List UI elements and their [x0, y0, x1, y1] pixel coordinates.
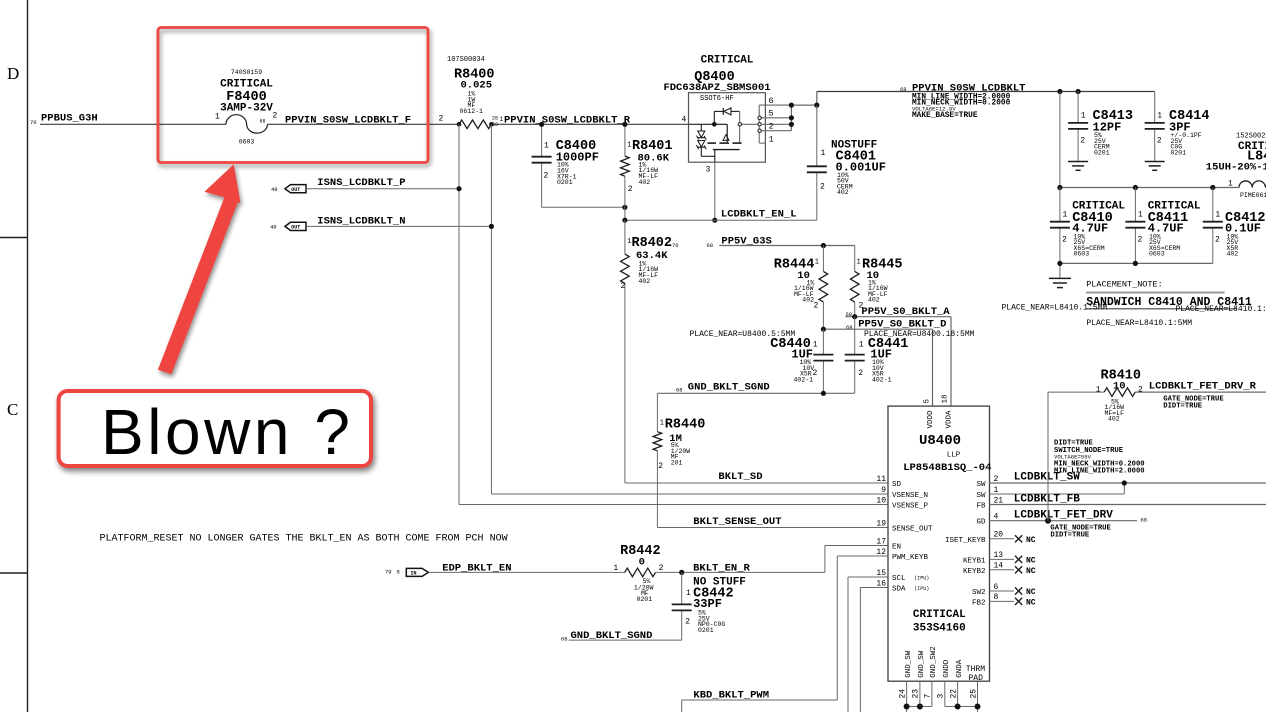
wire BKLT_EN_R	[656, 546, 889, 573]
svg-text:68: 68	[846, 324, 853, 331]
capacitor C8441	[845, 355, 865, 361]
capacitor C8411	[1125, 222, 1145, 228]
junction R8401 top	[622, 122, 627, 127]
capacitor C8413 wires	[1060, 92, 1078, 188]
svg-text:D: D	[7, 64, 19, 83]
wire VIN cap rail	[1060, 187, 1239, 189]
resistor R8445 labels	[857, 257, 903, 310]
capacitor C8401	[807, 166, 827, 172]
svg-text:2: 2	[439, 115, 444, 124]
svg-text:1: 1	[544, 142, 549, 151]
svg-text:LP8548B1SQ_-04: LP8548B1SQ_-04	[903, 462, 991, 474]
net PPVIN_S0SW_LCDBKLT_R label	[504, 114, 631, 126]
svg-text:20: 20	[994, 531, 1004, 540]
junction Q8400 pin3	[712, 218, 717, 223]
inductor L8400 pin1	[1228, 180, 1233, 189]
fuse F8400 pins	[215, 112, 278, 125]
wire R8400 to Q8400 pin4	[491, 123, 688, 125]
junction BKLT_EN_R	[679, 570, 684, 575]
resistor R8440 wires	[657, 393, 888, 527]
junction Q8400 bus 2	[789, 122, 794, 127]
junction PPVIN C8413	[1076, 89, 1081, 94]
svg-text:1: 1	[660, 420, 664, 428]
svg-text:THRM: THRM	[966, 665, 985, 674]
svg-text:3: 3	[937, 694, 946, 699]
svg-text:PLACE_NEAR=L8410.1:5MM: PLACE_NEAR=L8410.1:5MM	[1002, 304, 1108, 313]
net PPVIN_S0SW_LCDBKLT_F label	[285, 114, 411, 126]
svg-text:79: 79	[385, 569, 392, 576]
junction rail2 C8411	[1133, 185, 1138, 190]
junction rail2 C8410	[1057, 185, 1062, 190]
svg-text:PLACE_NEAR=L8410.1:5MM: PLACE_NEAR=L8410.1:5MM	[1176, 305, 1266, 314]
ground C8414	[1145, 162, 1165, 171]
net PP5V_S0_BKLT_D label	[846, 318, 946, 331]
svg-text:1: 1	[1096, 386, 1101, 395]
svg-text:LCDBKLT_FB: LCDBKLT_FB	[1014, 494, 1080, 506]
svg-text:NC: NC	[1026, 588, 1036, 597]
svg-text:201: 201	[671, 460, 683, 467]
net PPVIN_S0SW_LCDBKLT label	[900, 83, 1025, 95]
svg-text:11: 11	[876, 475, 886, 484]
svg-text:0201: 0201	[1171, 149, 1187, 156]
transistor Q8400 body	[689, 93, 766, 163]
svg-text:2: 2	[544, 172, 549, 181]
junction ISNS_P	[456, 186, 461, 191]
svg-text:402: 402	[802, 297, 814, 304]
svg-text:2: 2	[813, 369, 818, 378]
svg-text:19: 19	[876, 519, 886, 528]
resistor R8444	[819, 271, 828, 302]
svg-text:1: 1	[1157, 112, 1162, 121]
svg-text:KEYB2: KEYB2	[963, 568, 986, 576]
resistor R8401	[621, 156, 630, 176]
net PPVIN attributes	[912, 93, 1011, 120]
net GND_BKLT_SGND label	[676, 382, 770, 394]
svg-text:1: 1	[1063, 211, 1068, 220]
svg-text:U8400: U8400	[919, 433, 961, 449]
note PLACE_NEAR right	[1176, 305, 1266, 314]
svg-text:402-1: 402-1	[872, 377, 892, 384]
ground main caps	[1049, 278, 1071, 287]
svg-text:1: 1	[859, 341, 864, 350]
junction Q8400 bus 5	[789, 115, 794, 120]
capacitor C8414 labels	[1157, 109, 1210, 156]
svg-text:68: 68	[561, 635, 568, 642]
resistor R8400 pins	[439, 115, 504, 129]
svg-text:2: 2	[1080, 137, 1085, 146]
svg-text:ISNS_LCDBKLT_N: ISNS_LCDBKLT_N	[317, 215, 405, 227]
svg-text:SW: SW	[976, 492, 986, 500]
svg-text:2: 2	[820, 183, 825, 192]
svg-text:1: 1	[857, 259, 861, 267]
resistor R8401 labels	[627, 139, 672, 194]
svg-text:0201: 0201	[637, 596, 653, 603]
svg-text:152S0026: 152S0026	[1236, 133, 1266, 141]
net PP5V_S0_BKLT_A label	[846, 306, 951, 318]
capacitor C8410 wires	[1059, 188, 1061, 264]
capacitor C8400 wires	[542, 124, 625, 207]
svg-text:0201: 0201	[1094, 149, 1110, 156]
svg-text:1: 1	[1215, 211, 1220, 220]
ic U8400 nc pin8	[990, 598, 1036, 608]
svg-text:PLACE_NEAR=L8410.1:5MM: PLACE_NEAR=L8410.1:5MM	[1086, 319, 1192, 328]
svg-text:68: 68	[1141, 517, 1148, 524]
junction C8400 top	[539, 122, 544, 127]
capacitor C8411 wires	[1134, 188, 1136, 264]
zone letter D	[7, 64, 19, 83]
junction Q8400 bus 6	[789, 103, 794, 108]
inductor L8400	[1239, 181, 1266, 188]
svg-text:GND_BKLT_SGND: GND_BKLT_SGND	[688, 382, 770, 394]
svg-text:GNDA: GNDA	[956, 659, 964, 678]
junction gnd 23	[917, 704, 923, 710]
capacitor C8441 labels	[858, 337, 908, 384]
svg-text:5: 5	[923, 399, 931, 404]
wire PP5V_S0_BKLT_D	[821, 329, 932, 406]
net ISNS_LCDBKLT_N label	[317, 215, 405, 227]
resistor R8400 labels	[447, 56, 495, 115]
svg-text:28: 28	[492, 116, 498, 122]
svg-text:740S0159: 740S0159	[231, 69, 262, 76]
ic U8400 labels	[903, 433, 991, 635]
svg-text:16: 16	[876, 579, 886, 588]
svg-text:NC: NC	[1026, 567, 1036, 576]
wire PPBUS_G3H	[40, 123, 226, 125]
svg-text:49: 49	[271, 186, 278, 193]
capacitor C8442 labels	[685, 576, 746, 634]
wire SDA vertical	[860, 588, 888, 712]
wire Q8400 drain bus	[791, 105, 816, 131]
svg-text:0201: 0201	[557, 179, 573, 186]
svg-text:NC: NC	[1026, 557, 1036, 566]
wire fuse to R8400	[268, 123, 460, 125]
transistor Q8400 labels	[663, 55, 770, 94]
svg-text:18: 18	[941, 394, 949, 403]
svg-text:0603: 0603	[239, 139, 255, 146]
svg-text:PLATFORM_RESET NO LONGER GATES: PLATFORM_RESET NO LONGER GATES THE BKLT_…	[100, 534, 508, 545]
svg-text:353S4160: 353S4160	[913, 623, 966, 635]
wire BKLT_SD	[625, 481, 888, 483]
svg-text:NC: NC	[1026, 599, 1036, 608]
svg-text:1: 1	[821, 149, 826, 158]
capacitor C8440	[813, 355, 833, 361]
ic U8400 bottom pin names	[898, 646, 985, 698]
port OUT ISNS_LCDBKLT_N	[270, 222, 306, 230]
svg-text:GND_SW: GND_SW	[905, 650, 913, 678]
net LCDBKLT_EN_L label	[721, 209, 797, 221]
svg-text:BKLT_SD: BKLT_SD	[718, 471, 762, 483]
junction rail3 C8410	[1057, 261, 1062, 266]
ground C8413	[1068, 162, 1088, 171]
svg-text:5: 5	[769, 109, 774, 119]
svg-text:(IPU): (IPU)	[914, 576, 929, 582]
svg-text:LCDBKLT_FET_DRV_R: LCDBKLT_FET_DRV_R	[1149, 381, 1257, 393]
net PPBUS_G3H label	[30, 113, 98, 127]
resistor R8402	[621, 254, 630, 283]
capacitor C8440 wires	[822, 329, 824, 393]
svg-text:VSENSE_N: VSENSE_N	[892, 492, 928, 500]
svg-text:2: 2	[814, 302, 819, 311]
svg-text:C: C	[7, 400, 18, 419]
ic U8400 left pin names	[876, 475, 933, 594]
capacitor C8442	[672, 604, 692, 610]
wire R8445 bottom	[854, 302, 856, 317]
net PP5V_G3S label	[672, 235, 772, 249]
net LCDBKLT_SW attributes	[1054, 440, 1145, 476]
net BKLT_SD label	[718, 471, 762, 483]
resistor R8442 labels	[613, 544, 663, 603]
resistor R8444 labels	[774, 257, 819, 310]
annotation red box around F8400	[158, 28, 428, 163]
capacitor C8414 wires	[1154, 92, 1156, 161]
svg-text:5: 5	[397, 569, 400, 576]
transistor Q8400 pin4 label	[682, 116, 687, 125]
svg-text:402: 402	[837, 189, 849, 196]
svg-text:6: 6	[994, 583, 999, 592]
net BKLT_EN_R label	[693, 562, 750, 574]
resistor R8401 wires	[624, 124, 626, 220]
note PLATFORM_RESET	[100, 534, 508, 545]
capacitor C8410 labels	[1062, 201, 1125, 258]
svg-text:PPBUS_G3H: PPBUS_G3H	[41, 113, 98, 125]
svg-text:3AMP-32V: 3AMP-32V	[220, 103, 273, 115]
sheet border left	[0, 0, 28, 712]
svg-text:68: 68	[707, 242, 714, 249]
wire PP5V_G3S	[719, 246, 854, 272]
svg-text:14: 14	[994, 562, 1004, 571]
svg-text:0: 0	[639, 557, 645, 569]
svg-text:2: 2	[1062, 236, 1067, 245]
svg-text:PLACEMENT_NOTE:: PLACEMENT_NOTE:	[1086, 280, 1163, 290]
wire PP5V_S0_BKLT_A	[845, 317, 951, 406]
wire R8410 left to GD	[1048, 392, 1104, 521]
svg-text:8: 8	[994, 593, 999, 602]
svg-text:CRITICAL: CRITICAL	[220, 79, 273, 91]
svg-text:22: 22	[949, 689, 958, 699]
svg-text:EN: EN	[892, 544, 901, 552]
svg-text:10: 10	[876, 496, 886, 505]
wire KBD_BKLT_PWM	[682, 556, 888, 712]
svg-text:2: 2	[1138, 236, 1143, 245]
wire LCDBKLT_EN_L	[625, 219, 715, 221]
svg-text:2: 2	[658, 462, 663, 471]
svg-text:1: 1	[769, 134, 774, 144]
svg-text:402: 402	[639, 278, 651, 285]
transistor Q8400 internals	[689, 108, 742, 162]
placement note	[1086, 280, 1252, 310]
svg-text:OUT: OUT	[291, 187, 300, 193]
wire U8400 gnd pins	[907, 681, 978, 706]
svg-text:23: 23	[912, 689, 921, 699]
svg-text:KEYB1: KEYB1	[963, 557, 986, 565]
resistor R8402 wires	[624, 220, 626, 481]
svg-text:24: 24	[898, 689, 907, 699]
svg-text:0603: 0603	[1149, 251, 1165, 258]
resistor R8440	[653, 432, 662, 451]
svg-text:MIN_LINE_WIDTH=2.0000: MIN_LINE_WIDTH=2.0000	[1054, 467, 1145, 475]
ic U8400 pin18 VDDA	[941, 394, 953, 428]
svg-text:VSENSE_P: VSENSE_P	[892, 503, 929, 511]
note FET_DRV_R attrs	[1163, 395, 1224, 410]
junction PPVIN riser	[814, 103, 819, 108]
wire PPVIN rail riser	[816, 92, 818, 106]
wire U8400 gnd rail B	[945, 707, 978, 712]
svg-text:7: 7	[924, 694, 933, 699]
svg-text:1: 1	[994, 486, 999, 495]
svg-text:SCL: SCL	[892, 575, 906, 583]
svg-text:CRITICAL: CRITICAL	[913, 609, 966, 621]
ic U8400 right pin names	[945, 475, 1003, 608]
capacitor C8410	[1050, 222, 1070, 228]
svg-text:1: 1	[1081, 112, 1086, 121]
wire U8400 gnd rail A	[907, 707, 932, 712]
svg-text:9: 9	[881, 486, 886, 495]
svg-text:PPVIN_S0SW_LCDBKLT_F: PPVIN_S0SW_LCDBKLT_F	[285, 114, 411, 126]
capacitor C8411 labels	[1138, 201, 1201, 258]
svg-text:2: 2	[685, 618, 690, 627]
wire LCDBKLT_FET_DRV_R	[1135, 391, 1266, 393]
svg-text:SW: SW	[976, 481, 986, 489]
svg-text:2: 2	[769, 122, 774, 132]
svg-text:15: 15	[876, 569, 886, 578]
svg-text:DIDT=TRUE: DIDT=TRUE	[1163, 402, 1203, 410]
svg-text:VDDD: VDDD	[927, 410, 935, 429]
wire ISNS_LCDBKLT_P	[306, 188, 459, 190]
svg-text:2: 2	[1157, 137, 1162, 146]
capacitor C8413 labels	[1080, 109, 1133, 156]
svg-text:LCDBKLT_FET_DRV: LCDBKLT_FET_DRV	[1014, 509, 1113, 521]
note FET_DRV attrs	[1050, 525, 1111, 540]
svg-text:76: 76	[30, 119, 37, 126]
svg-text:68: 68	[676, 387, 683, 394]
svg-text:15UH-20%-1.5A: 15UH-20%-1.5A	[1206, 162, 1266, 174]
wire EDP_BKLT_EN	[428, 571, 624, 573]
capacitor C8412 labels	[1215, 211, 1266, 258]
resistor R8400	[459, 120, 491, 129]
svg-text:PAD: PAD	[969, 674, 984, 683]
svg-text:3: 3	[706, 166, 711, 175]
svg-text:LLP: LLP	[947, 452, 961, 460]
junction gnd 22	[955, 704, 961, 710]
svg-text:2: 2	[621, 282, 626, 291]
svg-text:402-1: 402-1	[794, 377, 814, 384]
capacitor C8414	[1145, 123, 1165, 129]
svg-text:0603: 0603	[1074, 251, 1090, 258]
svg-text:SENSE_OUT: SENSE_OUT	[892, 526, 933, 534]
junction BKLT_D	[821, 327, 826, 332]
net LCDBKLT_FET_DRV label	[1014, 509, 1147, 523]
svg-text:SW2: SW2	[972, 589, 986, 597]
svg-text:GNDD: GNDD	[943, 659, 951, 678]
junction C8400 bottom	[622, 205, 627, 210]
resistor R8440 labels	[658, 418, 705, 472]
net LCDBKLT_FB label	[1014, 494, 1080, 506]
svg-text:R8402: R8402	[632, 236, 673, 251]
net LCDBKLT_FET_DRV_R label	[1149, 381, 1257, 393]
svg-text:0201: 0201	[698, 627, 714, 634]
svg-text:MAKE_BASE=TRUE: MAKE_BASE=TRUE	[912, 112, 978, 120]
svg-text:SD: SD	[892, 481, 902, 489]
fuse F8400 labels	[220, 69, 273, 146]
net EDP_BKLT_EN label	[442, 562, 511, 574]
svg-text:PPVIN_S0SW_LCDBKLT_R: PPVIN_S0SW_LCDBKLT_R	[504, 114, 631, 126]
annotation red arrow	[158, 164, 241, 374]
wire SW pin1 join	[990, 483, 1125, 494]
wire Q8400 pin3 to EN_L	[714, 162, 716, 220]
svg-text:DIDT=TRUE: DIDT=TRUE	[1050, 532, 1090, 540]
svg-text:FB: FB	[976, 503, 986, 511]
svg-text:1: 1	[215, 113, 220, 122]
fuse F8400 symbol	[226, 115, 268, 133]
svg-text:FDC638APZ_SBMS001: FDC638APZ_SBMS001	[663, 82, 770, 94]
resistor R8410	[1104, 388, 1135, 397]
wire LCDBKLT_SW	[990, 482, 1266, 484]
wire VSENSE_N horiz	[491, 493, 888, 495]
svg-text:GND_SW: GND_SW	[918, 650, 926, 678]
svg-text:0612-1: 0612-1	[460, 108, 484, 115]
junction gnd 24	[904, 704, 910, 710]
svg-text:BKLT_EN_R: BKLT_EN_R	[693, 562, 750, 574]
junction LCDBKLT_EN_L	[622, 218, 627, 223]
junction BKLT_A	[852, 314, 857, 319]
wire SCL vertical	[848, 577, 888, 712]
capacitor C8412	[1203, 222, 1223, 228]
junction R8400.1 sense tap	[457, 122, 462, 127]
svg-text:402: 402	[868, 297, 880, 304]
svg-text:6: 6	[769, 96, 774, 106]
junction gnd 25	[975, 704, 981, 710]
annotation Blown text	[101, 396, 350, 468]
capacitor C8441 wires	[854, 317, 856, 394]
svg-text:49: 49	[270, 224, 277, 231]
junction R8400.2 sense tap	[489, 122, 494, 127]
wire LCDBKLT_FET_DRV	[990, 520, 1138, 522]
svg-text:(IPU): (IPU)	[914, 586, 929, 592]
svg-text:IN: IN	[410, 571, 416, 577]
wire GND_BKLT_SGND 2	[569, 639, 682, 641]
svg-text:LCDBKLT_EN_L: LCDBKLT_EN_L	[721, 209, 797, 221]
capacitor C8412 wires	[1212, 188, 1214, 264]
svg-text:PIME061T: PIME061T	[1240, 192, 1266, 199]
junction FET_DRV	[1045, 518, 1051, 524]
svg-text:402: 402	[1227, 251, 1239, 258]
wire ISNS_LCDBKLT_N vertical	[490, 124, 492, 494]
net LCDBKLT_SW label	[1014, 471, 1080, 483]
svg-text:VOLTAGE=55V: VOLTAGE=55V	[1054, 453, 1092, 460]
svg-text:17: 17	[876, 537, 886, 546]
capacitor C8442 wires	[681, 572, 683, 640]
svg-text:1: 1	[813, 341, 818, 350]
note PLACE_NEAR bottom	[1086, 319, 1192, 328]
svg-text:4: 4	[682, 116, 687, 125]
note PLACE_NEAR left	[1002, 304, 1108, 313]
svg-text:GND_SW2: GND_SW2	[930, 646, 938, 678]
svg-text:FB2: FB2	[972, 599, 986, 607]
capacitor C8440 labels	[770, 337, 818, 384]
net KBD_BKLT_PWM label	[693, 690, 769, 702]
svg-text:SSOT6-HF: SSOT6-HF	[700, 95, 734, 103]
wire LCDBKLT_FB	[990, 504, 1266, 506]
svg-text:76: 76	[672, 242, 679, 249]
junction PP5V R8444	[821, 243, 826, 248]
svg-text:SDA: SDA	[892, 586, 906, 594]
svg-text:1: 1	[686, 589, 691, 598]
svg-text:1: 1	[815, 259, 819, 267]
wire VSENSE_P horiz	[459, 504, 888, 506]
svg-text:1: 1	[500, 116, 504, 123]
svg-text:402: 402	[1108, 416, 1120, 423]
svg-text:VDDA: VDDA	[946, 410, 954, 429]
